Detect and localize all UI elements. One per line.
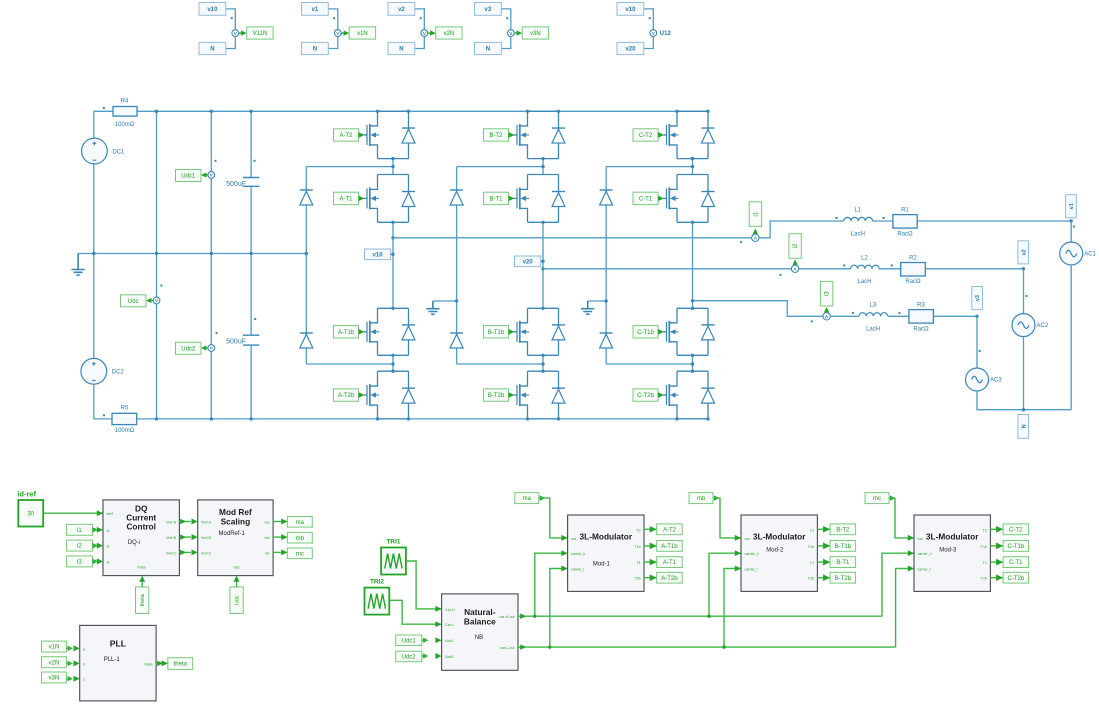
antiparallel diode of A-T1: [402, 192, 415, 207]
svg-text:i3: i3: [107, 560, 110, 564]
svg-text:i2: i2: [77, 544, 82, 550]
junction mid rail x=156.5: [155, 252, 158, 255]
wire bottom DC- rail: [94, 418, 709, 420]
wire PLL to theta label: [156, 662, 168, 664]
junction B T1 bottom: [541, 221, 544, 224]
arrow Udc1 out: [423, 638, 428, 643]
wire N to voltmeter: [415, 37, 425, 49]
arrow NB car-H-out: [520, 613, 526, 619]
svg-text:100mΩ: 100mΩ: [115, 428, 135, 434]
junction C phase output: [691, 299, 694, 302]
gate signal label B-T2b: [484, 389, 509, 401]
signal label ma (modulator input): [515, 493, 539, 504]
junction carrier-H Mod-1: [533, 615, 536, 618]
voltage source DC1: [82, 138, 126, 164]
transistor B-T1 (MOSFET with antiparallel diode): [514, 175, 559, 223]
wire Mod-2 T1b output: [817, 545, 830, 547]
svg-text:N: N: [486, 47, 490, 53]
wire v3 to voltmeter: [501, 9, 511, 30]
subsystem block Mod Ref Scaling (ModRef-1): [198, 500, 273, 576]
subsystem block PLL (PLL-1): [80, 625, 156, 701]
resistor R5: [112, 413, 137, 424]
svg-text:Udc2: Udc2: [445, 655, 453, 659]
wire Mod-3 T2 output: [990, 528, 1003, 530]
junction C-T2 diode on DC+ rail: [706, 110, 709, 113]
junction mid rail to phase A clamp: [305, 252, 308, 255]
wire Udc1 to NB: [422, 639, 428, 641]
svg-text:ModRef-1: ModRef-1: [219, 531, 246, 537]
transistor A-T2b (MOSFET with antiparallel diode): [364, 371, 409, 419]
arrow NB car-L-out: [520, 644, 526, 650]
wire Mod-1 T1 output: [644, 561, 657, 563]
arrow into mb label: [281, 534, 287, 540]
gate arrow into A-T2: [359, 132, 365, 138]
arrow into ModRef Udc input: [234, 576, 240, 582]
svg-text:A-T1b: A-T1b: [661, 544, 678, 550]
svg-text:R5: R5: [121, 406, 129, 412]
svg-text:Control: Control: [126, 521, 156, 531]
voltmeter Udc1: [208, 172, 215, 179]
arrow into Mod-1 carrier_l: [561, 566, 567, 572]
junction B-T2 drain on DC+ rail: [526, 110, 529, 113]
svg-text:carrier_h: carrier_h: [745, 552, 759, 556]
svg-text:C-T2b: C-T2b: [637, 393, 654, 399]
svg-text:A-T1: A-T1: [339, 197, 353, 203]
signal label Udc2: [176, 342, 202, 354]
svg-text:v2N: v2N: [444, 31, 455, 37]
arrow into B-T2b label: [823, 574, 830, 581]
svg-text:LacH: LacH: [851, 231, 865, 237]
wire i1 to L1: [759, 221, 844, 238]
wire Udc measurement branch: [156, 111, 158, 419]
wire (diode branch of A-T1b): [408, 308, 410, 355]
node box v1 (AC side): [1066, 195, 1077, 218]
svg-text:TRI2: TRI2: [370, 579, 384, 586]
wire Udc2 to NB: [422, 655, 428, 657]
resistor R4: [113, 107, 137, 117]
svg-text:v3N: v3N: [530, 31, 541, 37]
polarity dot: [835, 217, 837, 219]
wire mc to Mod-3: [889, 498, 914, 538]
svg-text:TRI1: TRI1: [386, 539, 400, 546]
svg-text:T2: T2: [810, 528, 814, 532]
polarity dot: [254, 318, 256, 320]
svg-text:L2: L2: [861, 255, 868, 261]
antiparallel diode of C-T1: [702, 192, 715, 207]
node box N (v10 group): [199, 42, 226, 54]
wire Mod-2 T1 output: [817, 561, 830, 563]
signal label i2 (control): [66, 540, 92, 551]
wire i3 to L3: [830, 315, 859, 317]
svg-text:B-T1b: B-T1b: [835, 544, 852, 550]
polarity dot: [216, 332, 218, 334]
signal label V11N: [247, 27, 273, 39]
svg-text:Udc1: Udc1: [181, 174, 196, 180]
signal label Udc (ModRef input): [230, 587, 243, 614]
junction A-T2b diode on DC- rail: [407, 417, 410, 420]
node box v2 (AC side): [1018, 241, 1029, 264]
gate arrow into B-T2: [509, 132, 515, 138]
signal label ma: [287, 517, 312, 528]
wire clamp diode branch phase C: [605, 167, 607, 364]
wire T1-T1b (phase node) phase B: [542, 222, 544, 308]
svg-text:T1: T1: [810, 561, 814, 565]
wire clamp diode branch phase A: [305, 167, 307, 364]
ammeter i3: [823, 313, 830, 320]
voltmeter for v2N: [421, 30, 428, 37]
arrow into B-T2 label: [823, 526, 830, 533]
wire neutral ground tap phase B: [433, 300, 457, 302]
signal label mc: [287, 548, 312, 559]
svg-text:Car-H: Car-H: [445, 608, 455, 612]
svg-text:a: a: [83, 647, 85, 651]
arrow v2N out: [68, 661, 73, 666]
signal label v3N: [522, 27, 548, 39]
svg-text:L1: L1: [855, 208, 862, 214]
node box v10 (U12 group): [617, 3, 644, 16]
wire theta to DQ block: [141, 581, 143, 587]
ground (neutral phase B): [426, 301, 439, 314]
node box v3 (AC side): [972, 287, 983, 310]
junction A-T2 diode on DC+ rail: [407, 110, 410, 113]
svg-text:B-T2b: B-T2b: [488, 393, 505, 399]
svg-text:Scaling: Scaling: [221, 516, 251, 526]
svg-text:v10: v10: [207, 7, 218, 13]
signal label theta (DQ input): [136, 587, 149, 614]
junction C-T2 drain on DC+ rail: [675, 110, 678, 113]
wire AC1 to neutral bus: [1070, 265, 1072, 410]
svg-text:car-H-out: car-H-out: [500, 615, 515, 619]
wire capacitor C2 to DC- rail: [250, 345, 252, 419]
signal label mb (modulator input): [689, 493, 713, 504]
svg-text:DC1: DC1: [112, 149, 125, 155]
wire carrier-H to Mod-2: [709, 553, 741, 616]
arrow into A-T2 label: [650, 526, 657, 533]
svg-text:T2: T2: [983, 528, 987, 532]
transistor C-T2 (MOSFET with antiparallel diode): [663, 111, 708, 158]
junction bottom rail x=211.3: [210, 417, 213, 420]
arrow into Mod-2 carrier_l: [735, 566, 741, 572]
wire L1 to R1: [873, 220, 893, 222]
arrow into i1 label: [753, 229, 758, 234]
arrow into PLL input v3N: [74, 676, 80, 682]
junction C clamp bottom: [691, 362, 694, 365]
svg-text:B-T1: B-T1: [836, 560, 850, 566]
polarity dot: [779, 274, 781, 276]
junction C T2 bottom: [691, 157, 694, 160]
gate arrow into C-T2b: [658, 392, 664, 398]
wire AC neutral bus: [977, 391, 1071, 410]
svg-text:3L-Modulator: 3L-Modulator: [580, 532, 633, 542]
junction A T2 bottom: [391, 157, 394, 160]
polarity dot: [649, 17, 651, 19]
svg-text:C-T1: C-T1: [639, 197, 653, 203]
signal label A-T2b (gate): [657, 572, 683, 583]
svg-text:Vref-A: Vref-A: [201, 521, 212, 525]
gate arrow into A-T2b: [359, 392, 365, 398]
wire Mod-3 T2b output: [990, 577, 1003, 579]
gate arrow into C-T2: [658, 132, 664, 138]
wire id-ref to DQ block: [43, 512, 103, 514]
wire v3N to PLL: [66, 678, 72, 680]
arrow into ModRef input: [192, 549, 198, 555]
arrow into Mod-2 m input: [735, 535, 741, 541]
svg-text:b: b: [83, 662, 85, 666]
wire v10 to voltmeter U12: [644, 9, 654, 30]
wire ModRef to mc: [273, 551, 287, 553]
clamp diode lower phase B: [450, 333, 463, 348]
antiparallel diode of B-T1: [552, 192, 565, 207]
wire carrier-H to Mod-1: [535, 553, 568, 616]
gate signal label A-T2: [334, 129, 359, 141]
svg-text:LacH: LacH: [866, 327, 880, 333]
wire v10 to voltmeter: [226, 9, 236, 30]
arrow DQ output: [180, 550, 186, 556]
svg-text:i1: i1: [754, 211, 760, 216]
svg-text:v2: v2: [1021, 249, 1027, 255]
svg-text:v20: v20: [625, 47, 636, 53]
wire clamp bottom to T1b/T2b junction phase A: [306, 363, 393, 365]
voltmeter for v3N: [507, 30, 514, 37]
polarity dot: [843, 264, 845, 266]
gate signal label B-T1b: [484, 326, 509, 338]
junction A phase output: [391, 236, 394, 239]
junction B T1b bottom: [541, 354, 544, 357]
wire v2 node to AC2: [1023, 269, 1025, 314]
svg-text:Mod-1: Mod-1: [593, 562, 611, 568]
svg-text:i3: i3: [77, 560, 82, 566]
junction B-T2b diode on DC- rail: [557, 417, 560, 420]
subsystem block 3L-Modulator (Mod-3): [914, 515, 990, 591]
signal label Udc: [121, 295, 147, 307]
signal label v1N (PLL input): [42, 641, 67, 652]
arrow into Udc2 label: [201, 345, 206, 350]
svg-text:carrier_l: carrier_l: [918, 568, 931, 572]
svg-text:Vref-B: Vref-B: [166, 536, 177, 540]
svg-text:A-T1b: A-T1b: [338, 330, 355, 336]
transistor A-T2 (MOSFET with antiparallel diode): [364, 111, 409, 158]
svg-text:mb: mb: [296, 536, 305, 542]
svg-text:T2b: T2b: [981, 577, 987, 581]
svg-text:N: N: [210, 47, 214, 53]
wire phase B output to ammeter i2: [543, 268, 791, 270]
junction C T1b top: [691, 307, 694, 310]
arrow i3 out: [93, 559, 98, 564]
signal label Udc2 (NB input): [396, 651, 422, 662]
node box v3: [475, 3, 502, 16]
gate arrow into C-T1b: [658, 329, 664, 335]
node box v10: [365, 249, 391, 260]
gate arrow into A-T1: [359, 196, 365, 202]
wire voltmeter to v3N: [514, 32, 517, 34]
gate arrow into A-T1b: [359, 329, 365, 335]
junction A T1b top: [391, 307, 394, 310]
svg-text:100mΩ: 100mΩ: [115, 122, 135, 128]
gate signal label B-T2: [484, 129, 509, 141]
wire phase C output to ammeter i3: [693, 301, 823, 317]
antiparallel diode of B-T2b: [552, 388, 565, 403]
node box N (v3 group): [475, 42, 502, 54]
svg-text:v1N: v1N: [357, 31, 368, 37]
wire N to voltmeter: [226, 37, 236, 49]
svg-text:mb: mb: [697, 496, 706, 502]
wire (diode branch of B-T1b): [558, 308, 560, 355]
junction node v20: [541, 260, 544, 263]
wire (diode branch of B-T2b): [558, 371, 560, 419]
svg-text:car-L-out: car-L-out: [500, 646, 514, 650]
arrow into v3N: [517, 30, 523, 35]
gate signal label A-T1: [334, 192, 359, 204]
antiparallel diode of C-T2: [702, 128, 715, 143]
svg-text:C-T1: C-T1: [1009, 560, 1023, 566]
svg-text:NB: NB: [475, 635, 483, 641]
svg-text:T1b: T1b: [634, 545, 640, 549]
signal label C-T1b (gate): [1003, 541, 1029, 552]
signal label B-T2 (gate): [830, 524, 856, 535]
wire (diode branch of C-T1): [707, 175, 709, 223]
signal label A-T1 (gate): [657, 557, 683, 568]
polarity dot: [506, 17, 508, 19]
triangle wave generator TRI1: [381, 548, 406, 575]
arrow into ma label: [281, 519, 287, 525]
wire T1-T1b (phase node) phase A: [392, 222, 394, 308]
polarity dot: [103, 414, 105, 416]
antiparallel diode of B-T1b: [552, 325, 565, 340]
signal label v3N (PLL input): [42, 672, 67, 683]
svg-text:C-T2b: C-T2b: [1008, 576, 1025, 582]
svg-text:PLL-1: PLL-1: [104, 657, 121, 663]
arrow into NB Car-H: [435, 606, 441, 612]
junction C clamp top: [691, 165, 694, 168]
voltage source DC2: [81, 358, 125, 384]
antiparallel diode of B-T2: [552, 128, 565, 143]
wire carrier-L to Mod-2: [724, 569, 741, 648]
wire N to voltmeter: [328, 37, 338, 49]
transistor A-T1 (MOSFET with antiparallel diode): [364, 175, 409, 223]
polarity dot: [1073, 226, 1075, 228]
inductor L3: [859, 313, 888, 317]
arrow into DQ i3 input: [97, 558, 103, 564]
svg-text:Mod-3: Mod-3: [939, 548, 957, 554]
wire carrier-H to Mod-3: [882, 553, 914, 616]
wire (diode branch of C-T2b): [707, 371, 709, 419]
node box N (v2 group): [388, 42, 415, 54]
gate signal label A-T2b: [334, 389, 359, 401]
svg-text:ma: ma: [918, 537, 923, 541]
voltmeter Udc2: [208, 345, 215, 352]
svg-text:B-T2b: B-T2b: [835, 576, 852, 582]
svg-text:v3: v3: [975, 295, 981, 301]
voltmeter U12: [650, 30, 657, 37]
wire T2-T1 phase C: [692, 159, 694, 175]
junction B clamp bottom: [541, 362, 544, 365]
ammeter i1: [752, 234, 759, 241]
arrow into Mod-3 m input: [908, 535, 914, 541]
gate signal label C-T1: [633, 192, 658, 204]
arrow into i2 label: [793, 260, 798, 265]
svg-text:mc: mc: [296, 551, 304, 557]
antiparallel diode of C-T1b: [702, 325, 715, 340]
arrow into theta label: [162, 660, 168, 666]
signal label C-T2 (gate): [1003, 524, 1029, 535]
voltage source AC2: [1012, 314, 1049, 337]
wire v3 node to AC3: [976, 316, 978, 368]
voltmeter Udc: [153, 297, 160, 304]
gate arrow into B-T1b: [509, 329, 515, 335]
stub to node label v20: [541, 260, 543, 262]
wire DQ to ModRef y=521.5: [179, 521, 191, 523]
signal label i3 (control): [66, 556, 92, 567]
polarity dot: [254, 160, 256, 162]
svg-text:ma: ma: [523, 496, 532, 502]
arrow into NB Udc2: [435, 653, 441, 659]
wire voltmeter to v2N: [428, 32, 431, 34]
wire Mod-1 T2b output: [644, 577, 657, 579]
transistor C-T1 (MOSFET with antiparallel diode): [663, 175, 708, 223]
capacitor C1 (500uF): [243, 178, 259, 187]
arrow into Mod-1 carrier_h: [561, 550, 567, 556]
svg-text:id-ref: id-ref: [17, 490, 36, 499]
triangle wave generator TRI2: [365, 588, 390, 615]
svg-text:ma: ma: [745, 537, 750, 541]
wire (diode branch of C-T2): [707, 111, 709, 158]
junction B T2b top: [541, 370, 544, 373]
junction A T1 bottom: [391, 221, 394, 224]
wire phase A output to ammeter i1: [393, 237, 752, 239]
junction B T2 bottom: [541, 157, 544, 160]
wire Mod-1 T2 output: [644, 528, 657, 530]
junction clamp-neutral phase B: [455, 299, 458, 302]
svg-text:v2N: v2N: [49, 660, 60, 666]
arrow mb out: [714, 496, 719, 501]
svg-text:AC1: AC1: [1084, 252, 1096, 258]
svg-text:v1N: v1N: [49, 645, 60, 651]
svg-text:T2b: T2b: [634, 577, 640, 581]
arrow into PLL input v1N: [74, 645, 80, 651]
svg-text:carrier_l: carrier_l: [571, 568, 584, 572]
wire clamp bottom to T1b/T2b junction phase C: [606, 363, 692, 365]
junction A T1b bottom: [391, 354, 394, 357]
svg-text:Udc1: Udc1: [445, 639, 453, 643]
svg-text:v3N: v3N: [49, 676, 60, 682]
svg-text:U12: U12: [660, 31, 672, 37]
svg-text:AC3: AC3: [990, 378, 1002, 384]
arrow v1N out: [68, 646, 73, 651]
polarity dot: [811, 320, 813, 322]
arrow into PLL input v2N: [74, 660, 80, 666]
ground (DC midpoint): [71, 254, 84, 276]
svg-text:B-T1: B-T1: [489, 197, 503, 203]
transistor C-T1b (MOSFET with antiparallel diode): [663, 308, 708, 355]
arrow into DQ theta input: [139, 576, 145, 582]
node box v10: [199, 3, 226, 16]
gate signal label C-T2: [633, 129, 658, 141]
svg-text:T1: T1: [636, 561, 640, 565]
wire mb to Mod-2: [713, 498, 741, 538]
svg-text:v3: v3: [485, 7, 492, 13]
svg-text:theta: theta: [138, 565, 146, 569]
arrow into C-T2 label: [996, 526, 1003, 533]
probe label i1: [749, 202, 761, 227]
arrow into Mod-1 m input: [561, 535, 567, 541]
wire clamp top to T1/T2 junction phase A: [306, 166, 393, 168]
wire DQ to ModRef y=552.4: [179, 551, 191, 553]
svg-text:PLL: PLL: [110, 638, 126, 648]
wire DC1 branch: [93, 111, 95, 253]
polarity dot: [979, 350, 981, 352]
svg-text:Mod-2: Mod-2: [766, 548, 784, 554]
svg-text:N: N: [313, 47, 317, 53]
